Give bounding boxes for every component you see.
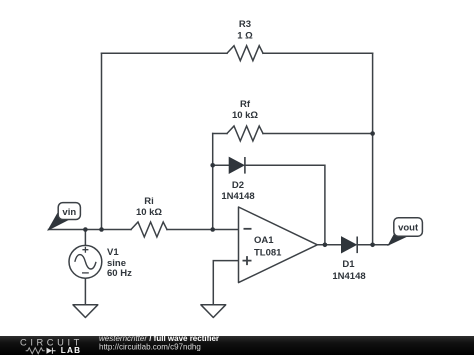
wire output row y=244.8: [317, 244, 388, 246]
junction dot D2 branch: [210, 163, 215, 168]
wire V1 top lead: [84, 230, 86, 246]
junction dot Rf right: [370, 131, 375, 136]
resistor Ri zigzag: [131, 222, 167, 237]
V1 sine waveform: [75, 255, 96, 269]
junction dot feedback branch/main wire: [210, 227, 215, 232]
junction dot left branch/main wire: [99, 227, 104, 232]
svg-text:D1: D1: [342, 259, 355, 270]
op-amp OA1 triangle: [239, 207, 318, 283]
diode D1: [342, 237, 358, 254]
svg-text:http://circuitlab.com/c97ndhg: http://circuitlab.com/c97ndhg: [99, 343, 201, 352]
wire Rf row y=133.5: [213, 133, 373, 135]
resistor Rf zigzag: [227, 126, 263, 141]
ground symbol under op-amp plus input: [201, 305, 226, 318]
svg-text:1N4148: 1N4148: [221, 191, 254, 202]
ground symbol under V1: [73, 305, 98, 318]
junction dot op-amp output: [323, 243, 328, 248]
logo diode icon: [47, 348, 53, 354]
svg-text:westerncritter / full wave rec: westerncritter / full wave rectifier: [99, 334, 219, 343]
wire top row y=53.2: [102, 52, 373, 54]
wire feedback branch x=212.7: [212, 134, 214, 230]
logo resistor zigzag icon: [26, 348, 45, 354]
wire right column x=372.6 from top row down to output row: [372, 53, 374, 245]
svg-text:R3: R3: [239, 19, 251, 30]
node flag vin tail: [48, 212, 68, 230]
svg-text:Rf: Rf: [240, 99, 251, 110]
junction dot V1/main wire: [83, 227, 88, 232]
svg-text:TL081: TL081: [254, 247, 282, 258]
node flag vout box: [394, 218, 423, 237]
svg-text:10 kΩ: 10 kΩ: [232, 110, 258, 121]
svg-text:Ri: Ri: [144, 196, 154, 207]
svg-text:1 Ω: 1 Ω: [237, 31, 253, 42]
svg-text:D2: D2: [232, 180, 244, 191]
op-amp plus pin symbol: [243, 256, 252, 265]
node flag vin box: [58, 203, 80, 220]
diode D2: [229, 157, 245, 174]
svg-text:V1: V1: [107, 247, 119, 258]
wire V1 bottom lead: [84, 278, 86, 305]
junction dot D1 right: [370, 243, 375, 248]
svg-text:60 Hz: 60 Hz: [107, 268, 132, 279]
svg-text:10 kΩ: 10 kΩ: [136, 207, 162, 218]
V1 plus polarity mark: [82, 247, 88, 253]
resistor R3 zigzag: [227, 46, 263, 61]
svg-text:vin: vin: [62, 207, 76, 218]
svg-text:OA1: OA1: [254, 235, 274, 246]
voltage source V1 circle: [69, 245, 102, 278]
svg-text:LAB: LAB: [61, 346, 81, 355]
svg-text:vout: vout: [398, 223, 419, 234]
wire op-amp plus input to ground: [213, 261, 238, 305]
wire main input row y=229.5 from vin tail to op-amp minus input: [49, 229, 239, 231]
V1 minus polarity mark: [82, 272, 89, 274]
svg-text:1N4148: 1N4148: [332, 271, 365, 282]
wire left branch up x=101.5: [101, 53, 103, 229]
wire D2 row y=165.3 and down branch x=324.9: [213, 165, 325, 245]
op-amp minus pin symbol: [244, 228, 252, 230]
node flag vout tail: [389, 228, 408, 245]
